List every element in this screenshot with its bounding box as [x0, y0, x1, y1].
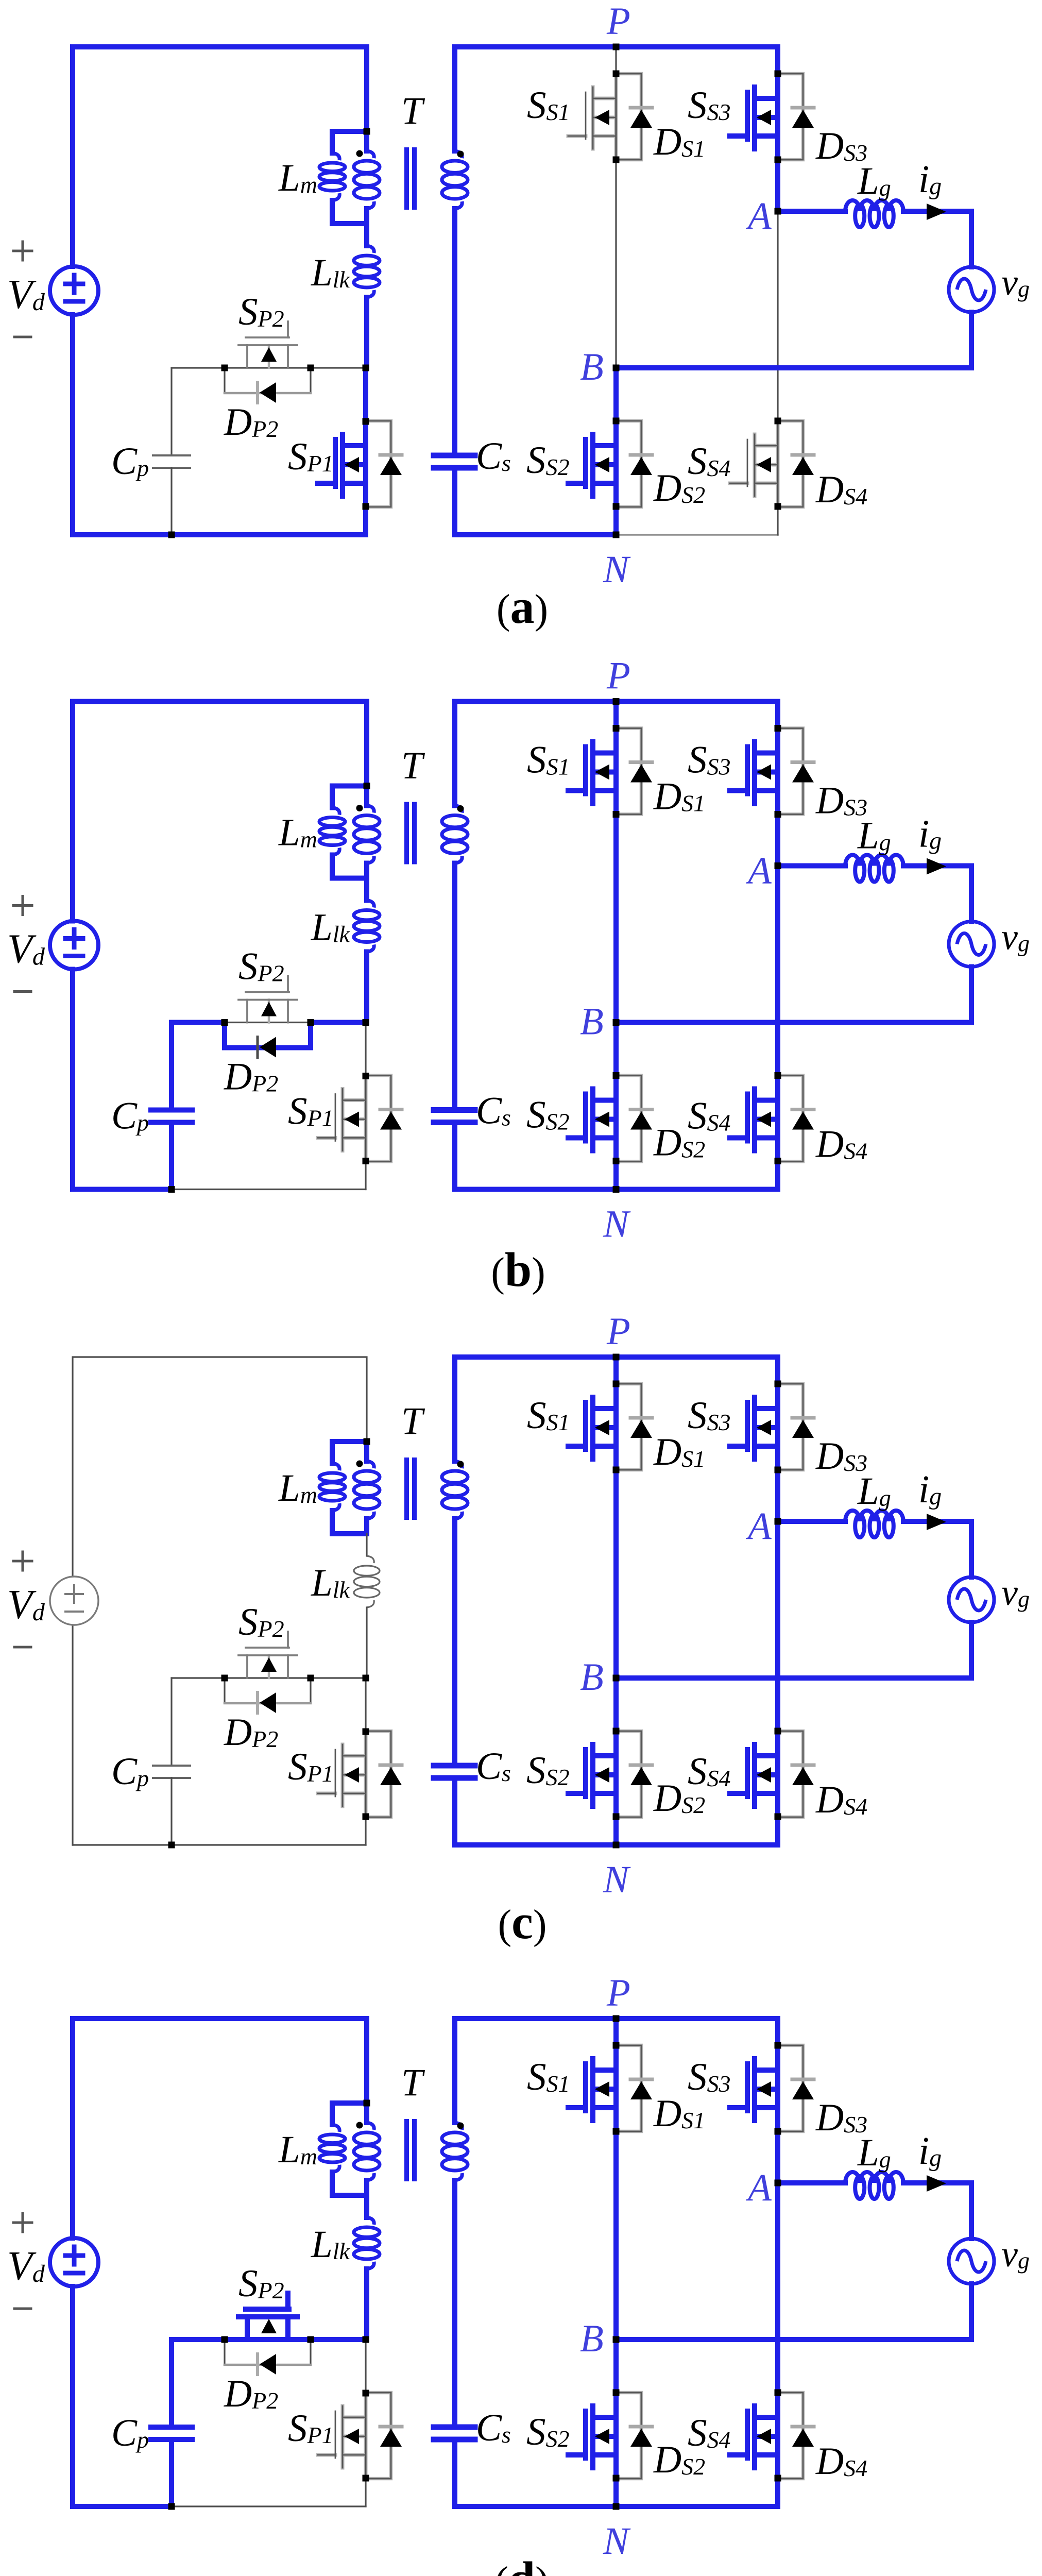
svg-text:A: A [745, 2166, 772, 2209]
svg-text:P: P [606, 0, 630, 43]
svg-text:T: T [401, 1400, 425, 1443]
svg-text:T: T [401, 2061, 425, 2104]
svg-text:A: A [745, 1505, 772, 1548]
svg-text:A: A [745, 850, 772, 892]
svg-text:N: N [603, 1203, 631, 1246]
svg-text:N: N [603, 548, 631, 591]
svg-text:B: B [580, 1656, 604, 1699]
svg-text:B: B [580, 2317, 604, 2360]
svg-text:(b): (b) [491, 1243, 545, 1297]
svg-text:P: P [606, 655, 630, 698]
svg-text:P: P [606, 1310, 630, 1353]
svg-text:N: N [603, 2520, 631, 2563]
svg-text:(c): (c) [498, 1895, 546, 1949]
svg-text:P: P [606, 1972, 630, 2014]
svg-text:N: N [603, 1858, 631, 1901]
svg-text:A: A [745, 195, 772, 238]
svg-text:B: B [580, 1001, 604, 1043]
svg-text:(a): (a) [497, 580, 548, 634]
svg-text:B: B [580, 346, 604, 388]
svg-text:T: T [401, 744, 425, 787]
svg-text:T: T [401, 90, 425, 132]
